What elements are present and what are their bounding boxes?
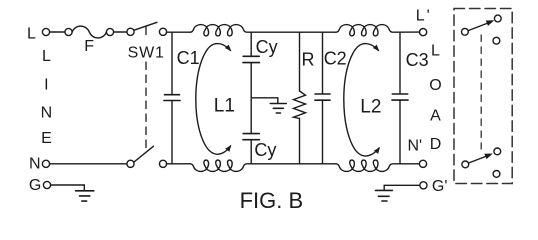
ground at Cy midpoint bbox=[270, 104, 286, 114]
svg-text:L2: L2 bbox=[360, 96, 381, 117]
terminal N bbox=[42, 160, 49, 167]
L1 flux arrow arc bbox=[196, 44, 231, 155]
svg-text:O: O bbox=[429, 77, 441, 94]
svg-text:G: G bbox=[29, 177, 41, 194]
capacitor C1 bbox=[171, 32, 173, 94]
dashed mechanical link of SW1 bbox=[145, 27, 147, 35]
resistor R bbox=[299, 32, 301, 91]
svg-text:D: D bbox=[430, 136, 442, 153]
wire L terminal to fuse bbox=[50, 31, 65, 33]
switch box bottom pole bbox=[462, 161, 469, 168]
ground at G' bbox=[384, 185, 420, 190]
wire G terminal to ground bbox=[51, 185, 85, 191]
switch SW1 bottom pole bbox=[127, 160, 134, 167]
svg-text:L: L bbox=[416, 8, 425, 25]
wire fuse to SW1 bbox=[114, 31, 127, 33]
inductor L1 top winding bbox=[190, 25, 247, 36]
ground at G bbox=[76, 191, 94, 201]
wire N terminal to switch bbox=[50, 163, 127, 165]
svg-text:F: F bbox=[84, 38, 94, 55]
terminal L' bbox=[420, 28, 427, 35]
svg-text:N: N bbox=[29, 156, 41, 173]
wire Cy midpoint to ground bbox=[251, 98, 278, 104]
svg-text:E: E bbox=[41, 130, 52, 147]
wire top rail SW1 to L1 bbox=[167, 31, 190, 33]
L2 flux arrow arc bbox=[344, 44, 379, 156]
svg-text:L1: L1 bbox=[214, 96, 235, 117]
svg-text:G': G' bbox=[432, 178, 448, 195]
wire bottom rail SW1 to L1 bbox=[167, 163, 190, 165]
svg-text:A: A bbox=[430, 107, 441, 124]
inductor L1 bottom winding bbox=[190, 160, 247, 171]
svg-text:I: I bbox=[44, 77, 48, 94]
terminal G bbox=[43, 181, 50, 188]
switch SW1 top pole bbox=[127, 28, 134, 35]
wire top rail L2 to L' bbox=[394, 31, 420, 33]
svg-text:C3: C3 bbox=[406, 50, 429, 70]
svg-text:N': N' bbox=[408, 137, 423, 154]
wire top rail L1 to L2 bbox=[248, 31, 336, 33]
terminal L bbox=[42, 28, 49, 35]
svg-text:L: L bbox=[431, 43, 440, 60]
svg-text:N: N bbox=[41, 105, 53, 122]
dashed enclosure of DPDT switch bbox=[454, 9, 512, 184]
terminal G' bbox=[420, 182, 427, 189]
svg-text:SW1: SW1 bbox=[128, 45, 165, 62]
inductor L2 top winding bbox=[336, 25, 393, 36]
svg-text:Cy: Cy bbox=[256, 37, 278, 57]
capacitor Cy bottom bbox=[243, 133, 259, 135]
svg-text:C1: C1 bbox=[177, 48, 200, 68]
capacitor C3 bbox=[399, 32, 401, 94]
wire between Cy caps bbox=[250, 63, 252, 134]
switch box top pole bbox=[462, 28, 469, 35]
wire bottom rail L2 to N' bbox=[394, 163, 420, 165]
capacitor C2 bbox=[322, 32, 324, 94]
svg-text:': ' bbox=[427, 8, 430, 25]
wire bottom rail L1 to L2 bbox=[248, 163, 336, 165]
svg-text:FIG. B: FIG. B bbox=[240, 188, 304, 213]
inductor L2 bottom winding bbox=[336, 160, 393, 171]
terminal N' bbox=[419, 160, 426, 167]
svg-text:L: L bbox=[42, 48, 51, 65]
capacitor Cy top bbox=[250, 32, 252, 56]
svg-text:L: L bbox=[27, 26, 36, 43]
svg-text:C2: C2 bbox=[324, 49, 347, 69]
svg-text:R: R bbox=[302, 49, 315, 69]
fuse F bbox=[65, 28, 72, 35]
svg-text:Cy: Cy bbox=[254, 140, 276, 160]
dashed link inside switch box bbox=[480, 35, 482, 149]
